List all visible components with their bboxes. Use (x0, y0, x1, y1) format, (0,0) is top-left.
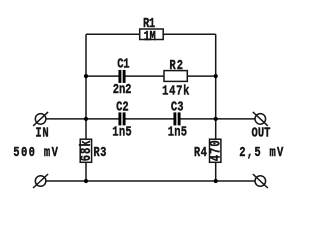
svg-text:C2: C2 (116, 99, 129, 115)
svg-text:1M: 1M (144, 28, 156, 44)
junction node row3 right (214, 117, 218, 121)
svg-text:IN: IN (35, 125, 48, 141)
wire row3 from C3 to OUT (180, 118, 255, 120)
wire row3 from IN to C2 (46, 118, 119, 120)
wire top horizontal right of R1 (163, 33, 216, 35)
terminal IN (33, 112, 48, 126)
svg-text:500 mV: 500 mV (13, 145, 58, 161)
capacitor C2 (112, 99, 131, 140)
junction node bottom right (214, 179, 218, 183)
junction node row3 left (84, 117, 88, 121)
resistor R1 (140, 16, 164, 45)
wire left vertical (85, 34, 87, 139)
svg-text:R2: R2 (169, 58, 183, 74)
svg-text:1n5: 1n5 (112, 124, 131, 140)
resistor R3 (77, 139, 106, 162)
terminal OUT (253, 112, 268, 126)
wire row3 between C2 and C3 (125, 118, 173, 120)
junction node row2 left (84, 74, 88, 78)
junction node bottom left (84, 179, 88, 183)
svg-text:2,5 mV: 2,5 mV (239, 145, 283, 161)
wire top horizontal left of R1 (86, 33, 140, 35)
resistor R2 (162, 58, 190, 99)
svg-text:R3: R3 (93, 145, 106, 161)
capacitor C1 (113, 56, 132, 97)
svg-text:68k: 68k (77, 140, 94, 161)
wire row2 left (86, 75, 119, 77)
svg-text:1n5: 1n5 (168, 124, 187, 140)
wire row2 middle (125, 75, 164, 77)
wire row2 right (187, 75, 215, 77)
wire right vertical below R4 (215, 162, 217, 181)
capacitor C3 (168, 99, 187, 140)
svg-text:2n2: 2n2 (113, 82, 132, 98)
wire bottom horizontal (46, 180, 255, 182)
resistor R4 (194, 139, 224, 162)
wire left vertical below R3 (85, 162, 87, 181)
terminal bottom left (33, 174, 48, 188)
junction node row2 right (214, 74, 218, 78)
svg-text:147k: 147k (162, 83, 190, 99)
svg-text:OUT: OUT (252, 125, 271, 141)
terminal bottom right (253, 174, 268, 188)
wire right vertical (215, 34, 217, 139)
svg-text:470: 470 (207, 140, 224, 161)
svg-text:R4: R4 (194, 145, 207, 161)
svg-text:C1: C1 (117, 56, 129, 72)
svg-text:C3: C3 (171, 99, 184, 115)
